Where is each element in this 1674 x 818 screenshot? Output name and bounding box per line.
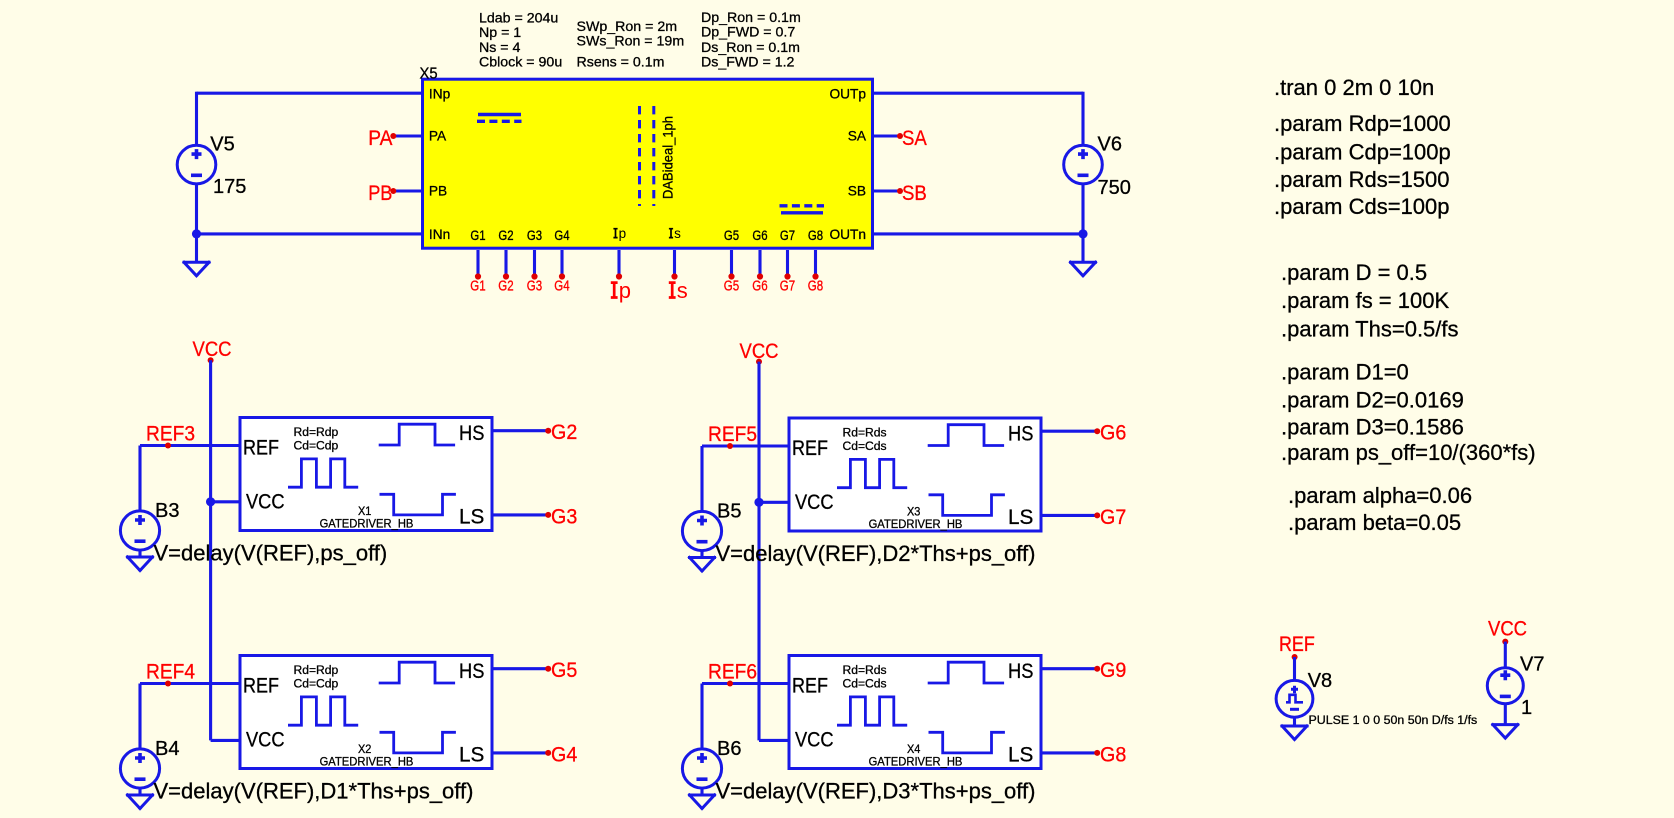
net flag dot G2 xyxy=(545,428,551,434)
wire VCC rail left column xyxy=(209,360,212,740)
svg-text:Cblock = 90u: Cblock = 90u xyxy=(479,55,562,71)
net flag dot Ip xyxy=(616,273,622,279)
wire stub pin Is (bottom) xyxy=(673,250,676,277)
wire stub pin G5 (bottom) xyxy=(730,250,733,277)
net flag dot Is xyxy=(671,273,677,279)
wire stub pin G4 (bottom) xyxy=(560,250,563,277)
wire V8 bottom to ground xyxy=(1293,717,1296,726)
X1 LS inverted-pulse waveform glyph xyxy=(380,494,456,515)
X3 REF double-pulse waveform glyph xyxy=(837,459,907,487)
primary winding symbol (solid+dashed bars) xyxy=(477,115,522,122)
svg-text:PA: PA xyxy=(429,129,447,144)
svg-text:HS: HS xyxy=(1008,422,1033,446)
svg-text:LS: LS xyxy=(459,505,484,529)
wire stub pin SB xyxy=(874,189,900,192)
net flag dot G6 xyxy=(1094,428,1100,434)
wire B3 bottom to ground xyxy=(138,550,141,557)
wire stub pin Ip (bottom) xyxy=(617,250,620,277)
transformer core (two vertical dashed lines) xyxy=(640,106,654,206)
X3 LS inverted-pulse waveform glyph xyxy=(929,495,1005,516)
net flag dot G7 xyxy=(1094,512,1100,518)
svg-text:G7: G7 xyxy=(780,279,795,295)
wire B5 bottom to ground xyxy=(700,550,703,557)
wire V6 bottom vertical xyxy=(1081,184,1084,263)
wire B3 to REF pin (vertical) xyxy=(138,446,141,512)
svg-text:LS: LS xyxy=(459,743,484,767)
svg-text:s: s xyxy=(674,226,681,241)
svg-text:Dp_FWD = 0.7: Dp_FWD = 0.7 xyxy=(701,25,795,41)
wire X5 OUTp to V6 top xyxy=(874,92,1083,95)
svg-text:V7: V7 xyxy=(1520,654,1544,676)
svg-text:.param alpha=0.06: .param alpha=0.06 xyxy=(1288,483,1472,508)
svg-text:.param D2=0.0169: .param D2=0.0169 xyxy=(1281,388,1464,413)
svg-text:SB: SB xyxy=(848,184,866,199)
svg-text:X5: X5 xyxy=(420,65,438,82)
svg-text:B3: B3 xyxy=(155,500,179,522)
svg-text:B5: B5 xyxy=(717,501,741,523)
X2 HS pulse waveform glyph xyxy=(379,662,455,683)
svg-text:G9: G9 xyxy=(1100,659,1126,682)
svg-text:V=delay(V(REF),D3*Ths+ps_off): V=delay(V(REF),D3*Ths+ps_off) xyxy=(716,778,1036,803)
X1 HS pulse waveform glyph xyxy=(379,424,455,445)
svg-text:VCC: VCC xyxy=(193,338,232,361)
svg-text:G7: G7 xyxy=(1100,506,1126,529)
svg-text:VCC: VCC xyxy=(246,490,285,514)
wire REF5 net to B5 (horizontal) xyxy=(702,444,789,447)
net flag dot G3 xyxy=(545,512,551,518)
wire stub pin G6 (bottom) xyxy=(758,250,761,277)
svg-text:SA: SA xyxy=(902,127,927,150)
net label Is xyxy=(669,278,688,303)
svg-text:G8: G8 xyxy=(808,228,823,243)
junction V6 bottom node xyxy=(1078,229,1087,238)
svg-text:VCC: VCC xyxy=(795,490,834,514)
net flag dot PA xyxy=(390,133,396,139)
svg-text:Rd=Rds: Rd=Rds xyxy=(843,426,887,440)
net flag dot G3 xyxy=(531,273,537,279)
X2 REF double-pulse waveform glyph xyxy=(288,697,358,725)
svg-text:OUTn: OUTn xyxy=(829,227,866,242)
svg-text:p: p xyxy=(619,278,631,303)
svg-text:REF3: REF3 xyxy=(146,423,195,446)
svg-text:HS: HS xyxy=(459,421,484,445)
net flag dot SA xyxy=(897,133,903,139)
svg-text:.param Cds=100p: .param Cds=100p xyxy=(1274,194,1450,219)
svg-text:Rd=Rdp: Rd=Rdp xyxy=(294,663,339,677)
svg-text:.param Rdp=1000: .param Rdp=1000 xyxy=(1274,111,1451,136)
ground at B4 xyxy=(128,795,153,809)
behavioural voltage source B6 xyxy=(682,749,721,788)
svg-text:G4: G4 xyxy=(551,743,578,766)
svg-text:Np = 1: Np = 1 xyxy=(479,25,521,41)
subcircuit X5 DABIdeal_1ph block body xyxy=(423,79,873,248)
svg-text:VCC: VCC xyxy=(740,340,779,363)
ground at V7 xyxy=(1493,725,1518,739)
wire VCC rail corner to X2 VCC pin xyxy=(211,739,240,742)
svg-text:G2: G2 xyxy=(498,279,513,295)
wire V5 bottom vertical xyxy=(195,184,198,263)
svg-text:G8: G8 xyxy=(808,279,823,295)
wire B5 to REF pin (vertical) xyxy=(700,446,703,512)
ground at V8 xyxy=(1282,726,1307,740)
svg-text:GATEDRIVER_HB: GATEDRIVER_HB xyxy=(320,517,414,531)
subcircuit X1 GATEDRIVER_HB block body xyxy=(240,418,492,531)
X5 pin label Ip (bottom row) xyxy=(613,226,626,241)
behavioural voltage source B5 xyxy=(682,511,721,550)
subcircuit X4 GATEDRIVER_HB block body xyxy=(789,656,1041,769)
X1 REF double-pulse waveform glyph xyxy=(288,459,358,487)
wire B4 to REF pin (vertical) xyxy=(138,684,141,750)
svg-text:HS: HS xyxy=(459,659,484,683)
wire LS output to G8 xyxy=(1041,751,1097,754)
svg-text:Ds_FWD = 1.2: Ds_FWD = 1.2 xyxy=(701,54,795,70)
wire stub pin SA xyxy=(874,134,900,137)
svg-text:G2: G2 xyxy=(551,421,577,444)
ground at V5 xyxy=(184,262,209,276)
wire LS output to G7 xyxy=(1041,514,1097,517)
svg-text:G3: G3 xyxy=(551,505,577,528)
wire stub pin G8 (bottom) xyxy=(814,250,817,277)
wire V5 bottom to X5 INn xyxy=(197,232,423,235)
svg-text:Cd=Cdp: Cd=Cdp xyxy=(294,439,339,453)
svg-text:G6: G6 xyxy=(1100,422,1126,445)
svg-text:V5: V5 xyxy=(210,133,234,155)
svg-text:.param D = 0.5: .param D = 0.5 xyxy=(1281,260,1427,285)
svg-text:.param D1=0: .param D1=0 xyxy=(1281,359,1409,384)
X5 pin label Is (bottom row) xyxy=(669,226,681,241)
svg-text:B6: B6 xyxy=(717,738,741,760)
wire 4 HS output to G5 xyxy=(492,667,548,670)
wire X5 OUTn to V6 bottom xyxy=(874,232,1083,235)
svg-text:REF5: REF5 xyxy=(708,423,757,446)
wire VCC rail to X1 VCC pin xyxy=(211,500,240,503)
svg-text:DABideal_1ph: DABideal_1ph xyxy=(660,116,675,199)
wire REF flag to V8 xyxy=(1293,657,1296,681)
svg-text:REF: REF xyxy=(792,436,828,460)
net flag dot G5 xyxy=(545,666,551,672)
svg-text:G3: G3 xyxy=(527,228,542,243)
svg-text:1: 1 xyxy=(1521,697,1532,719)
svg-text:.param D3=0.1586: .param D3=0.1586 xyxy=(1281,415,1464,440)
svg-text:G4: G4 xyxy=(554,279,569,295)
X2 LS inverted-pulse waveform glyph xyxy=(380,732,456,753)
svg-text:REF: REF xyxy=(792,674,828,698)
wire REF3 net to B3 (horizontal) xyxy=(140,444,240,447)
net flag dot G9 xyxy=(1094,666,1100,672)
svg-text:SWp_Ron = 2m: SWp_Ron = 2m xyxy=(577,19,678,35)
subcircuit X3 GATEDRIVER_HB block body xyxy=(789,418,1041,531)
svg-text:REF6: REF6 xyxy=(708,661,757,684)
wire stub pin PA xyxy=(393,134,422,137)
net flag dot VCC (left rail) xyxy=(208,357,214,363)
wire V6 vertical (top) xyxy=(1081,92,1084,146)
svg-text:G6: G6 xyxy=(752,228,767,243)
svg-text:G3: G3 xyxy=(527,279,542,295)
wire stub pin G2 (bottom) xyxy=(504,250,507,277)
svg-text:G5: G5 xyxy=(724,279,739,295)
svg-text:Ns = 4: Ns = 4 xyxy=(479,40,521,56)
net flag dot SB xyxy=(897,188,903,194)
svg-text:V8: V8 xyxy=(1308,670,1332,692)
wire stub pin G1 (bottom) xyxy=(476,250,479,277)
net flag dot G2 xyxy=(503,273,509,279)
svg-text:VCC: VCC xyxy=(1488,618,1527,641)
wire 5 HS output to G6 xyxy=(1041,430,1097,433)
net flag dot G6 xyxy=(757,273,763,279)
svg-text:G1: G1 xyxy=(470,228,485,243)
ground at B3 xyxy=(128,557,153,571)
net flag dot REF (V8) xyxy=(1292,654,1298,660)
net flag dot G1 xyxy=(475,273,481,279)
wire VCC rail to X3 VCC pin xyxy=(759,501,789,504)
svg-text:HS: HS xyxy=(1008,659,1033,683)
svg-text:GATEDRIVER_HB: GATEDRIVER_HB xyxy=(869,517,963,531)
svg-text:PB: PB xyxy=(368,182,392,205)
net flag dot G8 xyxy=(1094,750,1100,756)
junction VCC rail at X3 xyxy=(754,498,763,507)
wire V5 vertical (top) xyxy=(195,92,198,146)
net flag dot VCC (V7) xyxy=(1502,639,1508,645)
junction V5 bottom node xyxy=(192,229,201,238)
svg-text:PB: PB xyxy=(429,184,447,199)
svg-text:Cd=Cds: Cd=Cds xyxy=(843,677,887,691)
svg-text:.param beta=0.05: .param beta=0.05 xyxy=(1288,510,1461,535)
X4 LS inverted-pulse waveform glyph xyxy=(929,732,1005,753)
svg-text:LS: LS xyxy=(1008,743,1033,767)
ground at B5 xyxy=(690,558,715,572)
svg-text:p: p xyxy=(619,226,627,241)
wire stub pin G7 (bottom) xyxy=(786,250,789,277)
net flag dot REF4 xyxy=(165,681,171,687)
voltage source V6 xyxy=(1064,145,1103,184)
subcircuit X2 GATEDRIVER_HB block body xyxy=(240,656,492,769)
svg-text:V6: V6 xyxy=(1098,133,1122,155)
wire 3 HS output to G2 xyxy=(492,429,548,432)
net flag dot G5 xyxy=(728,273,734,279)
net label Ip xyxy=(611,278,631,303)
behavioural voltage source B4 xyxy=(120,749,159,788)
svg-text:G4: G4 xyxy=(554,228,570,243)
wire REF6 net to B6 (horizontal) xyxy=(702,682,789,685)
wire B6 bottom to ground xyxy=(700,788,703,795)
svg-text:G2: G2 xyxy=(498,228,513,243)
ground at B6 xyxy=(690,795,715,809)
wire B4 bottom to ground xyxy=(138,788,141,795)
wire VCC flag to V7 xyxy=(1504,642,1507,668)
voltage source V7 xyxy=(1487,668,1523,704)
svg-text:Dp_Ron = 0.1m: Dp_Ron = 0.1m xyxy=(701,10,801,26)
net flag dot G8 xyxy=(812,273,818,279)
X4 HS pulse waveform glyph xyxy=(928,662,1004,683)
svg-text:GATEDRIVER_HB: GATEDRIVER_HB xyxy=(869,755,963,769)
wire REF4 net to B4 (horizontal) xyxy=(140,682,240,685)
svg-text:INn: INn xyxy=(429,227,450,242)
svg-text:Cd=Cdp: Cd=Cdp xyxy=(294,677,339,691)
svg-text:.tran 0 2m 0 10n: .tran 0 2m 0 10n xyxy=(1274,75,1434,100)
svg-text:VCC: VCC xyxy=(246,728,285,752)
wire LS output to G4 xyxy=(492,751,548,754)
X4 REF double-pulse waveform glyph xyxy=(837,697,907,725)
svg-text:SA: SA xyxy=(848,129,867,144)
svg-text:.param fs = 100K: .param fs = 100K xyxy=(1281,288,1449,313)
svg-text:G1: G1 xyxy=(470,279,485,295)
svg-text:VCC: VCC xyxy=(795,728,834,752)
X3 HS pulse waveform glyph xyxy=(928,425,1004,446)
svg-text:SB: SB xyxy=(902,182,927,205)
svg-text:750: 750 xyxy=(1098,177,1131,199)
wire B6 to REF pin (vertical) xyxy=(700,684,703,750)
net flag dot G7 xyxy=(784,273,790,279)
svg-text:Rd=Rds: Rd=Rds xyxy=(843,663,887,677)
svg-text:PA: PA xyxy=(368,127,392,150)
svg-text:.param ps_off=10/(360*fs): .param ps_off=10/(360*fs) xyxy=(1281,440,1536,465)
net flag dot VCC (right rail) xyxy=(756,359,762,365)
svg-text:GATEDRIVER_HB: GATEDRIVER_HB xyxy=(320,755,414,769)
svg-text:SWs_Ron = 19m: SWs_Ron = 19m xyxy=(577,34,685,50)
behavioural voltage source B3 xyxy=(120,511,159,550)
ground at V6 xyxy=(1071,262,1096,276)
svg-text:INp: INp xyxy=(429,87,451,102)
wire VCC rail corner to X4 VCC pin xyxy=(759,739,789,742)
svg-text:V=delay(V(REF),ps_off): V=delay(V(REF),ps_off) xyxy=(154,540,388,565)
svg-text:Cd=Cds: Cd=Cds xyxy=(843,439,887,453)
net flag dot REF5 xyxy=(727,443,733,449)
svg-text:REF4: REF4 xyxy=(146,661,195,684)
svg-text:.param Cdp=100p: .param Cdp=100p xyxy=(1274,139,1451,164)
svg-text:PULSE 1 0 0 50n 50n D/fs 1/fs: PULSE 1 0 0 50n 50n D/fs 1/fs xyxy=(1309,713,1478,727)
svg-text:OUTp: OUTp xyxy=(829,87,866,102)
svg-text:.param Rds=1500: .param Rds=1500 xyxy=(1274,167,1450,192)
svg-text:G5: G5 xyxy=(551,659,577,682)
svg-text:V=delay(V(REF),D2*Ths+ps_off): V=delay(V(REF),D2*Ths+ps_off) xyxy=(716,541,1036,566)
net flag dot G4 xyxy=(545,750,551,756)
wire LS output to G3 xyxy=(492,513,548,516)
wire V5 top to X5 INp xyxy=(197,92,423,95)
wire 6 HS output to G9 xyxy=(1041,667,1097,670)
svg-text:REF: REF xyxy=(243,674,279,698)
svg-text:G7: G7 xyxy=(780,228,795,243)
wire VCC rail right column xyxy=(757,362,760,741)
svg-text:V=delay(V(REF),D1*Ths+ps_off): V=delay(V(REF),D1*Ths+ps_off) xyxy=(154,778,474,803)
svg-text:Rsens = 0.1m: Rsens = 0.1m xyxy=(577,54,665,70)
wire stub pin PB xyxy=(393,189,422,192)
net flag dot PB xyxy=(390,188,396,194)
voltage source V5 xyxy=(177,145,216,184)
net flag dot G4 xyxy=(559,273,565,279)
svg-text:s: s xyxy=(677,278,688,303)
svg-text:Ldab = 204u: Ldab = 204u xyxy=(479,10,558,26)
svg-text:G8: G8 xyxy=(1100,743,1126,766)
svg-text:G6: G6 xyxy=(752,279,767,295)
svg-text:LS: LS xyxy=(1008,505,1033,529)
pulse voltage source V8 xyxy=(1276,680,1313,717)
svg-text:Rd=Rdp: Rd=Rdp xyxy=(294,425,339,439)
svg-text:.param Ths=0.5/fs: .param Ths=0.5/fs xyxy=(1281,316,1459,341)
svg-text:G5: G5 xyxy=(724,228,739,243)
wire stub pin G3 (bottom) xyxy=(533,250,536,277)
net flag dot REF3 xyxy=(165,443,171,449)
secondary winding symbol (dashed+solid bars) xyxy=(780,206,825,213)
svg-text:B4: B4 xyxy=(155,738,179,760)
svg-text:REF: REF xyxy=(1279,633,1315,656)
net flag dot REF6 xyxy=(727,681,733,687)
wire V7 bottom to ground xyxy=(1504,704,1507,725)
svg-text:REF: REF xyxy=(243,436,279,460)
svg-text:175: 175 xyxy=(213,176,246,198)
junction VCC rail at X1 xyxy=(206,497,215,506)
